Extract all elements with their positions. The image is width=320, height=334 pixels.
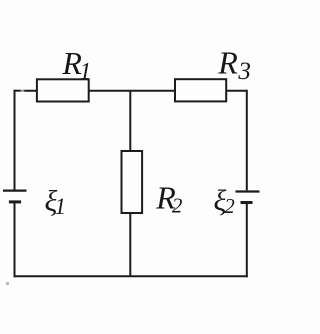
svg-text:2: 2 — [224, 194, 235, 218]
svg-text:1: 1 — [79, 59, 91, 85]
svg-text:3: 3 — [237, 58, 251, 85]
svg-text:2: 2 — [172, 194, 183, 218]
svg-text:1: 1 — [55, 194, 67, 219]
svg-text:R: R — [217, 45, 238, 81]
